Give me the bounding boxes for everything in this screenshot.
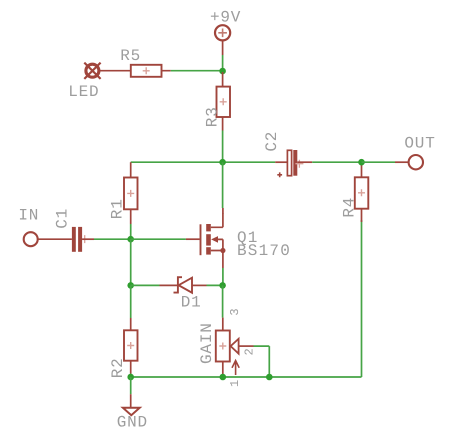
svg-text:GAIN: GAIN xyxy=(198,322,216,364)
svg-text:R2: R2 xyxy=(109,357,127,378)
junction out node xyxy=(358,159,365,166)
wire C2 to out node xyxy=(312,161,361,163)
svg-text:R4: R4 xyxy=(341,197,359,218)
wire node A horizontal xyxy=(131,161,276,163)
junction rail at GAIN pin1 xyxy=(220,374,227,381)
wire R1 to gate node xyxy=(130,224,132,239)
wire out node to pad xyxy=(362,161,396,163)
wire R3 to node A xyxy=(222,131,224,163)
potentiometer GAIN xyxy=(216,318,254,375)
transistor Q1 xyxy=(186,214,226,269)
svg-text:D1: D1 xyxy=(181,294,202,312)
svg-text:C1: C1 xyxy=(54,208,72,229)
ground xyxy=(123,394,140,415)
svg-text:R1: R1 xyxy=(108,198,126,219)
pad IN xyxy=(24,232,72,246)
ground rail wire xyxy=(131,220,362,377)
svg-text:OUT: OUT xyxy=(404,134,435,152)
diode D1 zener xyxy=(160,277,207,293)
resistor R2 xyxy=(124,318,138,374)
svg-text:R5: R5 xyxy=(120,47,141,65)
wire R5 to top node xyxy=(171,70,223,72)
svg-text:2: 2 xyxy=(242,348,256,355)
wire supply to top node xyxy=(222,55,224,71)
svg-text:C2: C2 xyxy=(263,131,281,152)
wire rail to GND symbol xyxy=(130,377,132,394)
LED indicator symbol xyxy=(84,63,100,79)
resistor R3 xyxy=(217,72,231,131)
junction top node xyxy=(219,68,226,75)
supply symbol +9V xyxy=(215,25,230,55)
junction rail at wiper xyxy=(266,374,273,381)
wire source node to GAIN pin 3 xyxy=(222,285,224,317)
svg-text:1: 1 xyxy=(228,380,242,387)
wire Q1 drain to node A xyxy=(222,162,224,208)
resistor R4 xyxy=(355,164,369,222)
junction D1 left node xyxy=(127,282,134,289)
junction source node xyxy=(219,282,226,289)
wire GAIN wiper to right column xyxy=(254,346,270,377)
svg-text:+9V: +9V xyxy=(210,8,241,26)
pad OUT xyxy=(395,155,423,169)
resistor R1 xyxy=(124,162,138,224)
wire C1 to gate node xyxy=(94,238,131,240)
junction node A xyxy=(219,159,226,166)
junction gate node xyxy=(127,236,134,243)
svg-text:IN: IN xyxy=(18,207,39,225)
wire gate node to Q1 gate xyxy=(131,238,186,240)
svg-text:R3: R3 xyxy=(204,106,222,127)
svg-text:BS170: BS170 xyxy=(237,242,291,260)
junction rail at R2 xyxy=(127,374,134,381)
svg-text:3: 3 xyxy=(228,308,242,315)
wire R2 to ground rail xyxy=(130,374,132,378)
svg-text:LED: LED xyxy=(68,83,99,101)
wire D1 node to R2 xyxy=(130,285,132,318)
wire D1 to source node xyxy=(207,284,223,286)
wire D1 left xyxy=(131,284,160,286)
svg-text:GND: GND xyxy=(117,413,148,431)
resistor R5 xyxy=(99,65,170,77)
wire Q1 source to source node xyxy=(222,268,224,285)
wire gate node down to D1 node xyxy=(130,239,132,285)
capacitor C1 xyxy=(72,227,94,252)
capacitor C2 xyxy=(275,150,312,177)
